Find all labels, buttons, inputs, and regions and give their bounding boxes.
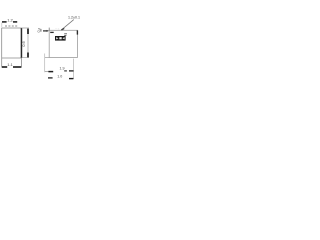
hidden dashed line above front view bbox=[5, 25, 18, 27]
height dimension bottom arrowhead bbox=[27, 53, 29, 58]
bottom dim A extension lines bbox=[45, 54, 74, 79]
bottom dimension line right arrow bbox=[13, 66, 21, 68]
top view left edge stub bbox=[48, 28, 50, 31]
inner pad dimension dash bbox=[50, 31, 54, 33]
svg-text:1.1: 1.1 bbox=[7, 62, 13, 67]
front view body outline bbox=[2, 28, 22, 58]
leader line to top edge bbox=[61, 20, 74, 31]
svg-text:1.9: 1.9 bbox=[60, 66, 65, 70]
svg-text:0.6: 0.6 bbox=[21, 40, 26, 46]
svg-text:1.2: 1.2 bbox=[7, 17, 13, 22]
height dimension top arrowhead bbox=[27, 29, 29, 34]
svg-text:1.0: 1.0 bbox=[57, 75, 62, 79]
leader arrowhead bbox=[61, 28, 64, 30]
marking box white marking glyphs bbox=[56, 37, 64, 39]
marking box bbox=[55, 36, 66, 41]
top width dimension left extension bbox=[1, 23, 3, 28]
bottom dimension extension lines bbox=[2, 58, 22, 68]
small note below top-right leader bbox=[64, 34, 67, 36]
bottom dim B left arrow bbox=[48, 77, 53, 79]
top width dimension right arrow bbox=[13, 21, 17, 23]
bottom dim B right arrow bbox=[69, 78, 73, 80]
left pad annotation arrow bbox=[43, 30, 47, 32]
bottom dim A right arrow bbox=[64, 70, 67, 72]
height dimension extension lines bbox=[22, 28, 30, 58]
top view right edge dark top segment bbox=[76, 30, 78, 34]
top view outline bbox=[49, 30, 77, 57]
bottom dimension line left arrow bbox=[2, 66, 7, 68]
annotation tick bbox=[40, 29, 42, 32]
top view bottom edge left extension bbox=[45, 57, 50, 59]
svg-text:·. .,: ·. ., bbox=[55, 26, 59, 30]
svg-text:1.2±0.1: 1.2±0.1 bbox=[68, 16, 80, 20]
bottom dim A left arrow bbox=[45, 71, 49, 73]
top width dimension left arrow bbox=[2, 21, 7, 23]
front view right terminal edge bbox=[21, 28, 23, 58]
